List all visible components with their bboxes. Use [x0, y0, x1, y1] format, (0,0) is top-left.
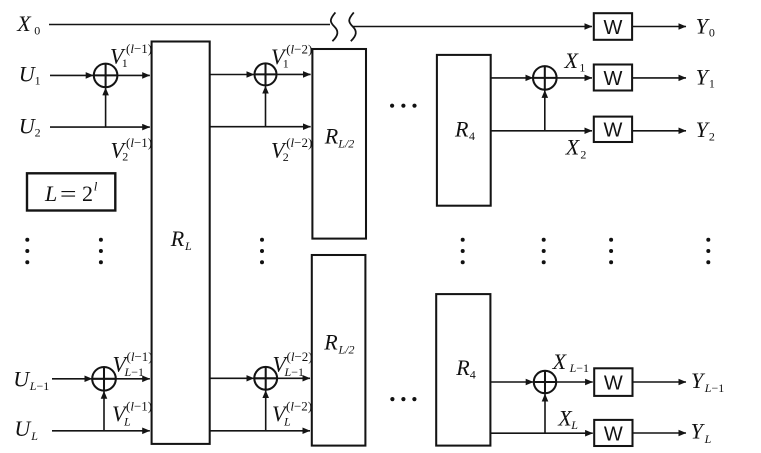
svg-text:(l−2): (l−2)	[287, 349, 313, 364]
label XL	[557, 405, 578, 432]
svg-text:(l−1): (l−1)	[126, 41, 152, 56]
svg-text:X: X	[552, 349, 568, 374]
hdots bottom between RL2 and R4	[390, 397, 416, 401]
block RL2 bottom	[312, 255, 366, 446]
wire C2 to RL2top	[277, 73, 311, 75]
svg-text:L: L	[123, 415, 131, 429]
vdots column 3	[260, 238, 264, 265]
wire RL to xor C2	[210, 74, 254, 76]
svg-text:(l−2): (l−2)	[286, 41, 312, 56]
block RL	[152, 42, 210, 444]
label YL	[691, 419, 712, 446]
wire WL-1 out to YL-1	[633, 381, 687, 383]
xor C4	[92, 367, 116, 391]
wire branch row2 up into C2	[265, 86, 267, 127]
label R4 bottom	[455, 355, 475, 382]
label VL-1(l-1)	[113, 349, 153, 379]
wire W0 out to Y0	[632, 26, 686, 28]
label YL-1	[691, 368, 724, 395]
label V1(l-2)	[271, 41, 312, 70]
wire RL bottom row to RL2bot	[210, 430, 310, 432]
svg-text:2: 2	[709, 129, 715, 143]
block W1	[594, 65, 632, 91]
hdots top between RL2 and R4	[390, 104, 417, 108]
label XL-1	[552, 349, 589, 375]
svg-text:R: R	[455, 355, 470, 380]
svg-text:W: W	[604, 373, 623, 395]
svg-text:L−1: L−1	[29, 379, 49, 393]
svg-text:U: U	[13, 366, 31, 391]
svg-text:2: 2	[35, 125, 41, 139]
label VL-1(l-2)	[273, 349, 313, 379]
xor C3	[533, 66, 557, 90]
svg-text:L/2: L/2	[337, 137, 354, 151]
svg-text:L−1: L−1	[284, 365, 304, 379]
svg-text:4: 4	[470, 367, 476, 381]
svg-text:Y: Y	[691, 419, 706, 444]
svg-text:Y: Y	[691, 368, 706, 393]
block RL2 top	[312, 49, 366, 239]
svg-text:2: 2	[580, 147, 586, 161]
svg-text:(l−1): (l−1)	[126, 135, 152, 150]
svg-text:2: 2	[283, 150, 289, 164]
label RL2 bottom	[323, 329, 354, 356]
vdots column 7	[706, 238, 710, 265]
block R4 bottom	[436, 294, 490, 446]
block R4 top	[437, 55, 491, 206]
label UL	[14, 416, 38, 443]
label R4 top	[454, 117, 475, 144]
wire X2 row R4top to W2	[491, 130, 592, 132]
wire branch X2 up into C3	[544, 90, 546, 131]
svg-text:0: 0	[34, 23, 40, 37]
wire UL-1 into xor C4	[52, 378, 92, 380]
svg-text:4: 4	[469, 129, 475, 143]
wire R4top to xor C3	[491, 77, 533, 79]
block W2	[594, 117, 632, 142]
wire branch UL up into C4	[103, 391, 105, 431]
wire WL out to YL	[633, 432, 687, 434]
label VL(l-1)	[112, 399, 152, 429]
label V2(l-1)	[111, 135, 153, 164]
label Y0	[696, 14, 715, 40]
block WL-1	[594, 368, 632, 396]
label RL2 top	[324, 123, 355, 150]
label Y1	[696, 64, 715, 90]
wire C1 to RL	[117, 74, 149, 76]
vdots column 2	[99, 238, 103, 265]
label UL-1	[13, 366, 49, 393]
vdots column 1	[25, 238, 29, 265]
legend box L=2^l	[27, 173, 115, 210]
svg-text:(l−2): (l−2)	[286, 135, 312, 150]
label X2	[565, 135, 587, 162]
svg-text:W: W	[604, 120, 623, 142]
xor C1	[94, 64, 118, 88]
svg-text:1: 1	[579, 61, 585, 75]
label U1	[19, 62, 41, 88]
svg-text:(l−2): (l−2)	[286, 399, 312, 414]
svg-text:1: 1	[709, 77, 715, 91]
label V2(l-2)	[271, 135, 312, 164]
svg-text:X: X	[565, 135, 581, 160]
svg-text:L: L	[570, 418, 578, 432]
wire RL to xor C5	[210, 377, 254, 379]
wire branch bottom row up into C5	[265, 390, 267, 430]
xor C5	[254, 367, 277, 390]
svg-text:L−1: L−1	[569, 361, 589, 375]
wire C6 to WL-1	[556, 381, 593, 383]
wire R4bot to xor C6	[490, 381, 533, 383]
wire branch XL up into C6	[544, 394, 546, 433]
break squiggle 1	[331, 12, 338, 41]
label X1	[564, 48, 586, 75]
wire C3 to W1	[557, 77, 592, 79]
svg-text:0: 0	[709, 25, 715, 39]
svg-text:L/2: L/2	[338, 342, 355, 356]
svg-text:L: L	[704, 432, 712, 446]
label RL	[170, 226, 192, 253]
label V1(l-1)	[110, 41, 152, 70]
vdots column 4	[461, 238, 465, 265]
xor C6	[534, 371, 556, 393]
wire W1 out to Y1	[632, 77, 686, 79]
svg-text:1: 1	[122, 56, 128, 70]
block W0	[594, 13, 632, 40]
vdots column 6	[609, 238, 613, 265]
wire U1 into xor C1	[50, 74, 93, 76]
svg-text:W: W	[604, 424, 623, 446]
label X0	[16, 11, 40, 37]
svg-text:L: L	[30, 429, 38, 443]
svg-text:W: W	[604, 17, 623, 39]
legend text L=2^l	[44, 179, 98, 206]
block WL	[594, 420, 632, 446]
svg-text:1: 1	[283, 56, 289, 70]
break squiggle 2	[349, 12, 356, 41]
vdots column 5	[542, 238, 546, 265]
label VL(l-2)	[272, 399, 312, 429]
svg-text:L−1: L−1	[704, 381, 724, 395]
label Y2	[696, 117, 715, 143]
wire X0 right segment into W0	[353, 26, 593, 28]
wire C4 to RL	[116, 378, 150, 380]
svg-text:2: 2	[122, 150, 128, 164]
svg-text:L: L	[283, 415, 291, 429]
svg-text:L: L	[44, 181, 57, 206]
label U2	[19, 113, 41, 139]
wire C5 to RL2bot	[277, 377, 310, 379]
svg-text:R: R	[323, 329, 338, 354]
wire U2 into RL	[50, 126, 150, 128]
svg-text:L: L	[184, 239, 192, 253]
svg-text:=: =	[60, 181, 77, 206]
svg-text:l: l	[94, 179, 98, 194]
xor C2	[255, 63, 277, 85]
svg-text:1: 1	[35, 74, 41, 88]
svg-text:R: R	[324, 123, 339, 148]
wire UL into RL	[52, 430, 150, 432]
svg-text:(l−1): (l−1)	[126, 399, 152, 414]
svg-text:W: W	[604, 68, 623, 90]
svg-text:U: U	[14, 416, 32, 441]
wire X0 left segment	[49, 24, 330, 26]
svg-text:X: X	[16, 11, 32, 36]
svg-text:R: R	[454, 117, 469, 142]
wire W2 out to Y2	[632, 130, 686, 132]
svg-text:L−1: L−1	[124, 365, 144, 379]
svg-text:X: X	[564, 48, 580, 73]
wire XL row R4bot to WL	[490, 432, 592, 434]
svg-text:R: R	[170, 226, 185, 251]
wire RL row2 to RL2top	[210, 126, 311, 128]
svg-text:2: 2	[82, 181, 93, 206]
wire branch U2 up into C1	[105, 88, 107, 127]
svg-text:(l−1): (l−1)	[127, 349, 153, 364]
